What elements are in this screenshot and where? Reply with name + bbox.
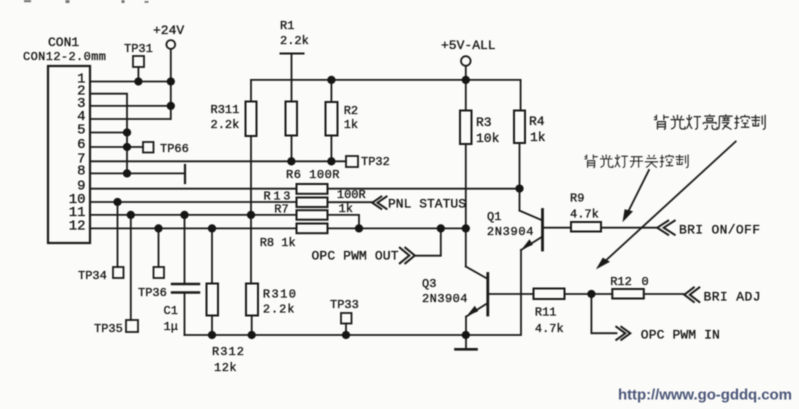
svg-text:2.2k: 2.2k xyxy=(263,303,295,317)
resistor R6 xyxy=(297,184,328,194)
resistor R13 xyxy=(297,198,328,208)
chevron BRI ADJ xyxy=(684,287,699,302)
svg-text:1k: 1k xyxy=(344,118,358,132)
resistor R9 xyxy=(571,222,601,232)
svg-text:http://www.go-gddq.com: http://www.go-gddq.com xyxy=(618,387,792,404)
wire R6 out xyxy=(328,188,520,190)
svg-text:C1: C1 xyxy=(164,304,178,318)
annotation arrow switch xyxy=(627,170,650,215)
svg-text:PNL STATUS: PNL STATUS xyxy=(388,197,466,212)
terminator bar pin8 xyxy=(184,165,186,183)
svg-text:CON12-2.0mm: CON12-2.0mm xyxy=(23,50,106,64)
resistor R4 xyxy=(520,80,522,111)
resistor R1 top bar xyxy=(281,53,304,55)
pin numbers xyxy=(69,72,86,235)
svg-text:CON1: CON1 xyxy=(48,35,79,50)
note 背光灯开关控制 xyxy=(584,154,688,167)
note 背光灯亮度控制 xyxy=(654,114,765,129)
node R1 bottom xyxy=(287,157,295,165)
wire R7 out xyxy=(328,215,360,229)
node R2 top bus xyxy=(327,76,335,84)
svg-text:Q3: Q3 xyxy=(422,277,436,291)
svg-text:Q1: Q1 xyxy=(487,210,501,224)
svg-text:R4: R4 xyxy=(529,114,545,129)
resistor R12 xyxy=(612,289,644,299)
test point TP33 xyxy=(341,313,352,324)
annotation arrow brightness xyxy=(603,142,736,264)
test point TP35 xyxy=(126,320,138,332)
chevron OPC PWM OUT xyxy=(400,248,415,264)
wire pin7 row to TP32 xyxy=(90,160,346,162)
node +24V/pin1 xyxy=(167,77,175,85)
wire pin8 row xyxy=(90,172,185,174)
wire pin2 row to column xyxy=(90,94,127,174)
node R4/Q1 collector xyxy=(515,184,523,192)
wire OPC PWM IN tap xyxy=(591,294,616,333)
svg-text:R13: R13 xyxy=(264,190,291,204)
svg-text:TP31: TP31 xyxy=(124,42,153,56)
svg-text:R11: R11 xyxy=(535,306,557,320)
svg-text:2.2k: 2.2k xyxy=(211,118,240,132)
wire pin1 row xyxy=(90,81,171,83)
wire pin12 row to R8 xyxy=(90,227,297,229)
svg-text:TP34: TP34 xyxy=(78,269,107,283)
scan specks top edge xyxy=(24,0,149,3)
wire pin9 row to R6 xyxy=(90,188,297,190)
node R312/pin12 xyxy=(208,224,216,232)
svg-text:1k: 1k xyxy=(339,202,353,216)
svg-text:100R: 100R xyxy=(337,188,366,202)
ground xyxy=(465,335,467,348)
wire pin11 row to R7 xyxy=(90,214,297,216)
wire pin4 row xyxy=(90,118,171,120)
node pin5 xyxy=(123,128,131,136)
resistor R312 xyxy=(211,228,213,283)
node TP33 gnd xyxy=(342,331,350,339)
test point TP36 xyxy=(154,267,165,278)
svg-text:R8 1k: R8 1k xyxy=(260,236,296,250)
svg-text:8: 8 xyxy=(77,163,85,179)
node R312 gnd xyxy=(208,331,216,339)
test point TP32 xyxy=(346,156,358,167)
svg-text:R12: R12 xyxy=(610,275,632,289)
wire +24V column xyxy=(170,49,172,119)
wire pin5 row xyxy=(90,132,127,134)
svg-text:R312: R312 xyxy=(212,345,244,359)
wire pin3 row xyxy=(90,105,171,107)
svg-text:2N3904: 2N3904 xyxy=(487,225,534,239)
svg-text:0: 0 xyxy=(642,275,649,289)
wire pin6 row to TP66 xyxy=(90,146,143,148)
svg-text:TP66: TP66 xyxy=(160,142,189,156)
node TP35/pin11 xyxy=(127,211,135,219)
chevron PNL STATUS xyxy=(372,197,386,209)
svg-text:10k: 10k xyxy=(476,131,500,146)
svg-text:12: 12 xyxy=(69,218,86,234)
node gnd junction xyxy=(462,331,470,339)
svg-text:R310: R310 xyxy=(263,288,296,302)
svg-text:OPC PWM IN: OPC PWM IN xyxy=(641,328,720,343)
svg-text:R2: R2 xyxy=(344,104,358,118)
svg-text:R7: R7 xyxy=(274,203,288,217)
svg-text:4.7k: 4.7k xyxy=(570,208,599,222)
wire +5V bus xyxy=(251,79,521,81)
svg-text:R6 100R: R6 100R xyxy=(286,168,340,182)
svg-text:4.7k: 4.7k xyxy=(535,322,564,336)
node +24V/pin3 xyxy=(167,102,175,110)
svg-text:+5V-ALL: +5V-ALL xyxy=(441,38,496,53)
node R310 gnd xyxy=(248,331,256,339)
wire OPC PWM OUT tap xyxy=(416,228,441,255)
wire R13 out to PNL STATUS xyxy=(328,201,373,203)
test point TP31 xyxy=(133,56,144,67)
test point TP34 xyxy=(113,267,124,278)
svg-text:R1: R1 xyxy=(280,19,294,33)
svg-text:R3: R3 xyxy=(476,115,492,130)
resistor R3 xyxy=(465,80,467,111)
node pin6 xyxy=(123,143,131,151)
node R2 bottom xyxy=(327,157,335,165)
resistor R310 xyxy=(246,284,258,316)
svg-text:BRI ADJ: BRI ADJ xyxy=(704,290,761,305)
node TP34/pin10 xyxy=(113,198,121,206)
svg-text:TP33: TP33 xyxy=(330,298,359,312)
node OPC PWM OUT tap xyxy=(437,224,445,232)
node TP31/pin1 xyxy=(134,77,142,85)
node R3 column/R8 row xyxy=(462,224,470,232)
chevron BRI ON/OFF xyxy=(657,221,675,235)
svg-text:+24V: +24V xyxy=(153,23,184,38)
wire ground bus xyxy=(185,250,522,335)
node C1/pin11 xyxy=(180,211,188,219)
svg-text:1μ: 1μ xyxy=(164,320,178,334)
resistor R7 xyxy=(297,210,328,220)
svg-text:OPC PWM OUT: OPC PWM OUT xyxy=(312,249,399,264)
node TP36/pin12 xyxy=(154,224,162,232)
svg-text:R9: R9 xyxy=(570,192,584,206)
resistor R1 xyxy=(291,54,293,102)
test point TP66 xyxy=(143,142,154,153)
wire pin10 row to R13 xyxy=(90,201,297,203)
resistor R311 xyxy=(250,80,252,102)
resistor R8 xyxy=(297,224,328,234)
svg-text:TP32: TP32 xyxy=(361,155,390,169)
transistor Q3 xyxy=(466,267,488,279)
wire R8 out xyxy=(328,227,466,229)
chevron OPC PWM IN xyxy=(616,327,630,340)
power +24V terminal xyxy=(166,40,175,49)
node +5V bus xyxy=(462,76,470,84)
transistor Q1 xyxy=(519,189,521,211)
svg-text:1k: 1k xyxy=(530,130,546,145)
svg-text:BRI ON/OFF: BRI ON/OFF xyxy=(679,223,760,238)
node pin8 xyxy=(123,169,131,177)
svg-text:TP35: TP35 xyxy=(94,322,123,336)
node R7-R8 join xyxy=(355,224,363,232)
resistor R2 xyxy=(330,80,332,102)
connector CON1 body xyxy=(48,66,90,243)
svg-text:12k: 12k xyxy=(214,361,237,375)
svg-text:2N3904: 2N3904 xyxy=(422,292,468,306)
svg-text:R311: R311 xyxy=(211,103,240,117)
svg-text:2.2k: 2.2k xyxy=(280,34,309,48)
power +5V-ALL terminal xyxy=(461,56,471,66)
node R11-R12/OPC PWM IN xyxy=(587,290,595,298)
capacitor C1 xyxy=(184,215,186,284)
resistor R11 xyxy=(534,289,565,300)
node R311-R310/pin11 xyxy=(247,211,255,219)
svg-text:TP36: TP36 xyxy=(138,286,167,300)
